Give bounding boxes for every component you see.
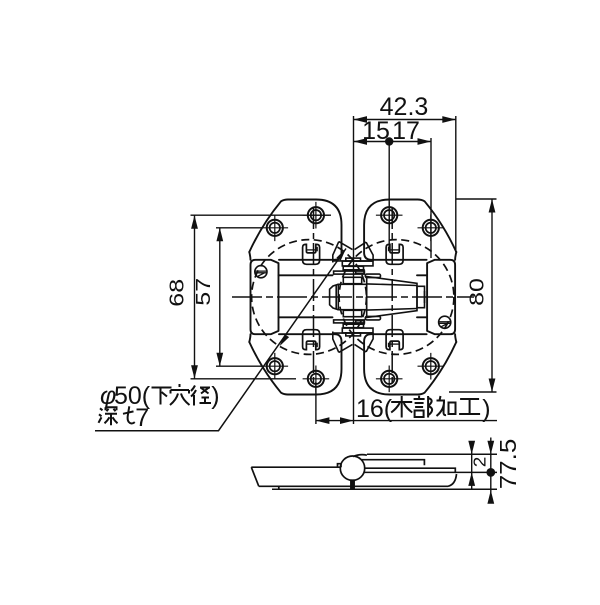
svg-text:57: 57 xyxy=(191,278,214,306)
svg-text:7: 7 xyxy=(135,404,149,432)
svg-text:15: 15 xyxy=(362,117,390,145)
svg-text:): ) xyxy=(482,395,490,423)
svg-text:80: 80 xyxy=(465,278,488,306)
svg-text:17: 17 xyxy=(392,117,420,145)
svg-text:2: 2 xyxy=(470,457,489,468)
svg-text:): ) xyxy=(211,382,219,410)
svg-text:77.5: 77.5 xyxy=(496,439,521,490)
svg-text:68: 68 xyxy=(165,279,188,307)
svg-text:16(: 16( xyxy=(356,395,393,423)
